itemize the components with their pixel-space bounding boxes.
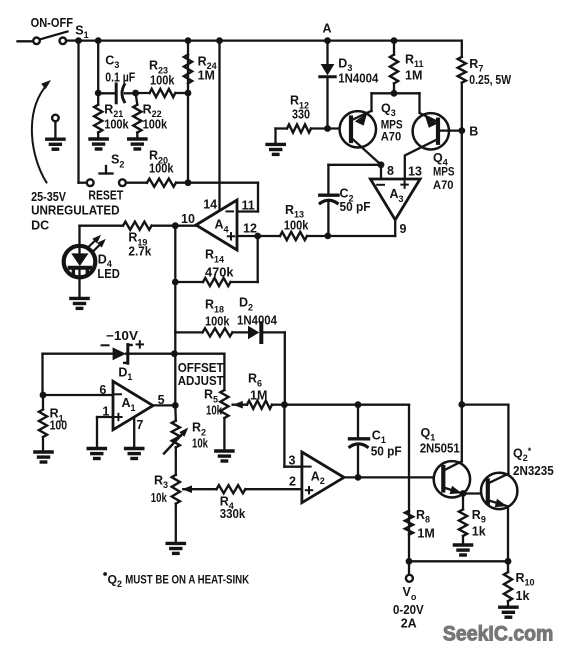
svg-text:1M: 1M — [417, 527, 434, 541]
svg-text:10k: 10k — [151, 491, 167, 505]
svg-text:330k: 330k — [220, 507, 246, 521]
svg-text:SeekIC.com: SeekIC.com — [443, 623, 554, 646]
svg-text:Q2MUST BE ON A HEAT-SINK: Q2MUST BE ON A HEAT-SINK — [108, 573, 250, 589]
svg-text:UNREGULATED: UNREGULATED — [31, 204, 120, 218]
svg-text:ADJUST: ADJUST — [178, 374, 224, 388]
svg-text:50 pF: 50 pF — [340, 200, 371, 214]
svg-text:6: 6 — [99, 383, 106, 397]
svg-text:2N5051: 2N5051 — [420, 442, 460, 456]
svg-text:ON-OFF: ON-OFF — [31, 16, 74, 30]
svg-text:330: 330 — [292, 108, 310, 122]
svg-text:50 pF: 50 pF — [371, 445, 402, 459]
svg-text:100k: 100k — [149, 162, 174, 176]
svg-text:25-35V: 25-35V — [31, 190, 66, 204]
svg-text:10k: 10k — [206, 404, 222, 418]
svg-text:5: 5 — [158, 393, 165, 407]
svg-text:470k: 470k — [205, 265, 234, 279]
svg-text:100k: 100k — [143, 117, 168, 131]
svg-text:1M: 1M — [198, 69, 215, 83]
svg-text:DC: DC — [31, 219, 49, 233]
svg-text:0.25, 5W: 0.25, 5W — [469, 73, 511, 87]
svg-text:2.7k: 2.7k — [128, 245, 151, 259]
svg-text:A70: A70 — [433, 178, 454, 192]
svg-text:100: 100 — [50, 419, 68, 433]
svg-text:100k: 100k — [104, 117, 129, 131]
svg-text:7: 7 — [136, 418, 143, 432]
svg-text:11: 11 — [242, 199, 255, 213]
svg-text:MPS: MPS — [433, 165, 455, 179]
svg-text:14: 14 — [203, 198, 217, 212]
svg-text:2: 2 — [289, 475, 296, 489]
svg-text:1N4004: 1N4004 — [237, 314, 277, 328]
svg-text:2A: 2A — [401, 617, 417, 631]
svg-text:A: A — [323, 22, 332, 36]
svg-text:1N4004: 1N4004 — [338, 72, 378, 86]
svg-text:8: 8 — [387, 164, 394, 178]
svg-text:0.1 µF: 0.1 µF — [105, 70, 135, 84]
svg-text:−10V: −10V — [106, 329, 139, 343]
svg-text:13: 13 — [408, 165, 422, 179]
svg-text:2N3235: 2N3235 — [513, 464, 554, 478]
svg-text:3: 3 — [289, 454, 296, 468]
svg-text:9: 9 — [400, 222, 407, 236]
svg-text:100k: 100k — [205, 315, 230, 329]
svg-text:RESET: RESET — [88, 189, 123, 203]
svg-text:1: 1 — [102, 404, 109, 418]
svg-text:LED: LED — [97, 267, 119, 281]
svg-text:1k: 1k — [516, 589, 530, 603]
svg-text:B: B — [469, 124, 478, 138]
svg-text:OFFSET: OFFSET — [178, 361, 224, 375]
svg-text:A70: A70 — [381, 129, 402, 143]
svg-text:100k: 100k — [150, 73, 175, 87]
svg-text:1M: 1M — [250, 389, 267, 403]
svg-text:10k: 10k — [192, 437, 208, 451]
svg-text:100k: 100k — [284, 218, 309, 232]
svg-text:1M: 1M — [405, 69, 422, 83]
svg-text:12: 12 — [243, 221, 257, 235]
svg-text:1k: 1k — [472, 525, 486, 539]
svg-text:10: 10 — [181, 212, 195, 226]
svg-text:0-20V: 0-20V — [393, 603, 424, 617]
